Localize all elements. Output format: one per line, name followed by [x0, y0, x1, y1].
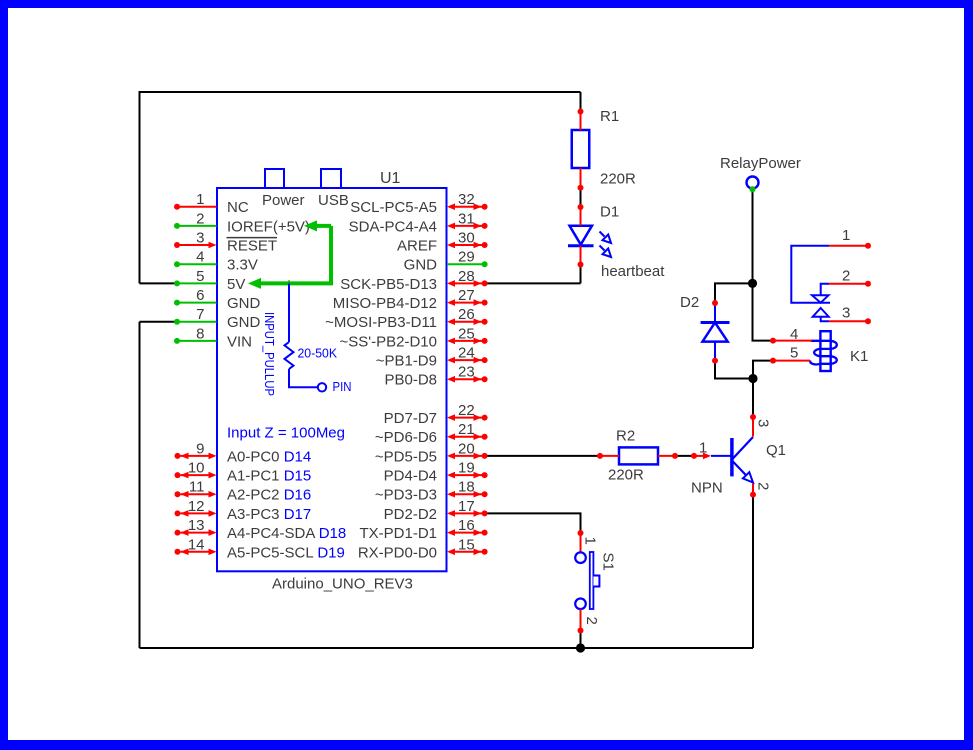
pin 4 wire — [177, 263, 217, 265]
wire top net (5V rail) — [140, 91, 581, 93]
svg-text:A2-PC2 D16: A2-PC2 D16 — [227, 487, 311, 504]
svg-text:29: 29 — [458, 249, 475, 266]
svg-text:23: 23 — [458, 364, 475, 381]
svg-text:USB: USB — [318, 192, 349, 209]
svg-text:2: 2 — [755, 482, 772, 490]
svg-text:220R: 220R — [600, 171, 636, 188]
svg-text:20: 20 — [458, 440, 475, 457]
wire R1 top stub — [580, 92, 582, 112]
svg-text:~MOSI-PB3-D11: ~MOSI-PB3-D11 — [325, 314, 437, 331]
pin 18 wire — [450, 493, 485, 495]
svg-text:PD7-D7: PD7-D7 — [384, 410, 437, 427]
svg-text:10: 10 — [188, 460, 205, 477]
svg-text:SCK-PB5-D13: SCK-PB5-D13 — [340, 276, 437, 293]
switch S1 pin 2 wire — [580, 609, 582, 630]
diode D1 cathode bar — [568, 244, 594, 247]
diode D2 cathode pin — [714, 303, 716, 323]
wire D1 bottom link — [580, 265, 582, 284]
relay K1 contact pin 2 wire — [829, 283, 868, 285]
pin 9 wire — [175, 453, 181, 459]
relay K1 pin 2 lead — [821, 284, 829, 296]
svg-text:TX-PD1-D1: TX-PD1-D1 — [359, 525, 437, 542]
svg-text:2: 2 — [196, 210, 204, 227]
svg-text:NC: NC — [227, 199, 249, 216]
svg-text:PB0-D8: PB0-D8 — [384, 372, 437, 389]
svg-text:~PB1-D9: ~PB1-D9 — [376, 353, 437, 370]
wire node to D2 top — [715, 283, 753, 303]
switch S1 top contact circle — [575, 552, 586, 563]
svg-text:26: 26 — [458, 306, 475, 323]
resistor R1 top pin — [580, 112, 582, 131]
svg-text:A4-PC4-SDA D18: A4-PC4-SDA D18 — [227, 525, 346, 542]
relay K1 coil winding — [810, 341, 837, 365]
switch S1 actuator bar — [590, 552, 594, 609]
svg-text:30: 30 — [458, 230, 475, 247]
svg-text:IOREF(+5V): IOREF(+5V) — [227, 218, 310, 235]
svg-text:9: 9 — [196, 440, 204, 457]
pin 8 wire — [177, 340, 217, 342]
green arrow to IOREF(+5V) — [313, 224, 331, 228]
resistor R1 bottom pin — [580, 168, 582, 188]
svg-text:12: 12 — [188, 498, 205, 515]
pin 15 wire — [450, 551, 485, 553]
svg-text:5: 5 — [196, 268, 204, 285]
svg-text:19: 19 — [458, 460, 475, 477]
svg-text:20-50K: 20-50K — [298, 346, 338, 361]
svg-text:heartbeat: heartbeat — [601, 263, 665, 280]
svg-text:27: 27 — [458, 287, 475, 304]
svg-text:GND: GND — [227, 314, 261, 331]
diode D2 triangle — [703, 323, 728, 342]
relay K1 coil pin 5 wire — [773, 360, 810, 362]
junction node B (D2/coil5/collector) — [748, 374, 757, 383]
pin 14 wire — [175, 549, 181, 555]
transistor Q1 collector stroke — [733, 437, 753, 459]
pin 29 wire (GND) — [447, 263, 484, 265]
svg-text:16: 16 — [458, 517, 475, 534]
svg-text:21: 21 — [458, 421, 475, 438]
transistor Q1 emitter arrowhead — [743, 472, 753, 482]
svg-text:A1-PC1 D15: A1-PC1 D15 — [227, 468, 311, 485]
pin 12 wire — [175, 510, 181, 516]
svg-text:R1: R1 — [600, 108, 619, 125]
svg-text:Q1: Q1 — [766, 442, 786, 459]
svg-text:18: 18 — [458, 479, 475, 496]
junction node C (S1/GND rail) — [576, 643, 585, 652]
pin 10 wire — [175, 472, 181, 478]
svg-text:22: 22 — [458, 402, 475, 419]
svg-text:3: 3 — [196, 230, 204, 247]
diode D1 cathode pin — [580, 246, 582, 265]
svg-text:4: 4 — [196, 249, 204, 266]
wire pin20 to R2 — [485, 455, 600, 457]
svg-text:AREF: AREF — [397, 238, 437, 255]
resistor R2 — [619, 447, 658, 464]
resistor R1 — [572, 130, 590, 168]
pin 26 wire — [450, 321, 485, 323]
svg-text:17: 17 — [458, 498, 475, 515]
svg-text:PIN: PIN — [333, 379, 352, 394]
transistor Q1 emitter pin — [752, 484, 754, 495]
pin 7 wire — [177, 321, 217, 323]
green junction tick — [288, 280, 290, 286]
pin 31 wire — [450, 225, 485, 227]
wire to relay coil pin 5 — [753, 361, 773, 379]
node RelayPower circle — [747, 177, 759, 189]
svg-text:GND: GND — [404, 257, 438, 274]
pin 23 wire — [450, 378, 485, 380]
pin 11 wire — [175, 491, 181, 497]
LED arrow 2 — [600, 246, 605, 251]
U1 USB connector notch — [321, 169, 341, 188]
pin 2 wire (IOREF) — [177, 225, 217, 227]
svg-text:~PD5-D5: ~PD5-D5 — [375, 448, 437, 465]
PIN terminal circle — [318, 383, 326, 391]
diode D2 anode pin — [714, 342, 716, 361]
resistor 20-50K zigzag — [285, 342, 294, 369]
relay K1 contact pin 1 wire — [829, 245, 868, 247]
svg-text:S1: S1 — [600, 553, 617, 571]
pin 1 wire (NC) — [177, 206, 217, 208]
svg-text:32: 32 — [458, 191, 475, 208]
svg-text:D2: D2 — [680, 294, 699, 311]
svg-text:7: 7 — [196, 306, 204, 323]
svg-text:VIN: VIN — [227, 333, 252, 350]
wire Q1 emitter to GND rail — [752, 495, 754, 648]
svg-text:R2: R2 — [616, 428, 635, 445]
wire left vertical (GND rail) — [139, 322, 141, 648]
svg-text:Power: Power — [262, 192, 305, 209]
svg-text:A5-PC5-SCL D19: A5-PC5-SCL D19 — [227, 544, 345, 561]
transistor Q1 collector pin — [752, 417, 754, 437]
wire to relay coil pin 4 — [753, 283, 774, 340]
switch S1 bottom contact circle — [575, 599, 586, 610]
RESET overline — [227, 237, 278, 239]
svg-text:~PD6-D6: ~PD6-D6 — [375, 429, 437, 446]
pin 21 wire — [450, 436, 485, 438]
svg-text:3: 3 — [842, 305, 850, 322]
svg-text:11: 11 — [189, 479, 205, 496]
svg-text:6: 6 — [196, 287, 204, 304]
pin 16 wire — [450, 532, 485, 534]
transistor Q1 base bar — [730, 438, 734, 476]
svg-text:GND: GND — [227, 295, 261, 312]
svg-text:RESET: RESET — [227, 238, 277, 255]
svg-text:Arduino_UNO_REV3: Arduino_UNO_REV3 — [272, 576, 413, 593]
pin 17 wire — [450, 512, 485, 514]
U1 Power connector notch — [265, 169, 284, 188]
svg-text:D1: D1 — [600, 204, 619, 221]
svg-text:U1: U1 — [380, 170, 401, 187]
svg-text:25: 25 — [458, 325, 475, 342]
svg-text:RelayPower: RelayPower — [720, 155, 801, 172]
wire R1-D1 link — [580, 188, 582, 207]
resistor R2 left pin — [600, 455, 619, 457]
svg-text:~SS'-PB2-D10: ~SS'-PB2-D10 — [340, 333, 438, 350]
transistor Q1 base lead — [711, 455, 732, 457]
svg-text:3: 3 — [755, 419, 772, 427]
svg-text:4: 4 — [790, 326, 798, 343]
svg-text:K1: K1 — [850, 348, 868, 365]
transistor Q1 emitter stroke — [733, 462, 753, 483]
svg-text:PD4-D4: PD4-D4 — [384, 468, 437, 485]
pin 3 wire (RESET) — [177, 244, 214, 246]
wire D2 bottom return — [715, 361, 753, 379]
svg-text:15: 15 — [458, 536, 475, 553]
svg-text:A3-PC3 D17: A3-PC3 D17 — [227, 506, 311, 523]
wire R2 to Q1 base — [675, 455, 694, 457]
relay K1 common arm lead — [791, 246, 830, 303]
pin 25 wire — [450, 340, 485, 342]
svg-text:3.3V: 3.3V — [227, 257, 258, 274]
switch S1 actuator notch — [593, 576, 599, 587]
wire pin17 to S1 — [485, 513, 581, 533]
relay K1 pin 3 lead — [821, 317, 830, 322]
svg-text:31: 31 — [458, 210, 475, 227]
switch S1 pin 1 wire — [580, 533, 582, 552]
svg-text:NPN: NPN — [691, 480, 723, 497]
green arrow to 5V — [258, 281, 333, 285]
svg-text:Input Z = 100Meg: Input Z = 100Meg — [227, 424, 345, 441]
wire 5V feed to pin 5 — [140, 282, 178, 284]
wire left vertical (5V rail) — [139, 91, 141, 283]
svg-text:PD2-D2: PD2-D2 — [384, 506, 437, 523]
pin 27 wire — [450, 302, 485, 304]
pin 6 wire — [177, 302, 217, 304]
svg-text:1: 1 — [196, 191, 204, 208]
pullup wire lower — [289, 369, 318, 387]
LED arrow 1 — [600, 232, 605, 237]
junction node A (RelayPower/D2/coil4) — [748, 279, 757, 288]
wire GND feed to pin 7 — [140, 321, 178, 323]
svg-text:220R: 220R — [608, 467, 644, 484]
svg-text:RX-PD0-D0: RX-PD0-D0 — [358, 544, 437, 561]
svg-text:14: 14 — [188, 536, 205, 553]
svg-text:~PD3-D3: ~PD3-D3 — [375, 487, 437, 504]
relay K1 contact pin 3 wire — [829, 320, 868, 322]
svg-text:5: 5 — [790, 345, 798, 362]
svg-text:13: 13 — [188, 517, 205, 534]
svg-text:SCL-PC5-A5: SCL-PC5-A5 — [350, 199, 437, 216]
pin 28 wire — [450, 282, 485, 284]
svg-text:2: 2 — [583, 617, 600, 625]
pin 24 wire — [450, 359, 485, 361]
svg-text:5V: 5V — [227, 276, 245, 293]
pin 30 wire — [450, 244, 485, 246]
relay K1 NC contact triangle — [812, 295, 829, 302]
wire bottom net (GND rail) — [140, 647, 754, 649]
diode D2 cathode bar — [701, 321, 730, 324]
svg-text:SDA-PC4-A4: SDA-PC4-A4 — [349, 218, 437, 235]
svg-text:INPUT_PULLUP: INPUT_PULLUP — [262, 312, 277, 396]
svg-text:MISO-PB4-D12: MISO-PB4-D12 — [333, 295, 437, 312]
svg-text:1: 1 — [842, 227, 850, 244]
svg-text:2: 2 — [842, 268, 850, 285]
relay K1 NO contact triangle — [813, 308, 829, 317]
svg-text:1: 1 — [582, 537, 599, 545]
wire RelayPower vertical — [752, 190, 754, 284]
wire pin28 to R1/D1 chain — [485, 282, 581, 284]
pin 20 wire — [450, 455, 485, 457]
relay K1 coil body — [820, 331, 830, 371]
wire S1 bottom to GND rail — [580, 631, 582, 649]
svg-text:8: 8 — [196, 325, 204, 342]
svg-text:28: 28 — [458, 268, 475, 285]
pin 19 wire — [450, 474, 485, 476]
transistor Q1 base pin wire — [694, 455, 704, 457]
pin 5 wire — [177, 282, 217, 284]
svg-text:A0-PC0 D14: A0-PC0 D14 — [227, 448, 311, 465]
pin 22 wire — [450, 417, 485, 419]
node RelayPower green dot — [750, 186, 756, 192]
pin 13 wire — [175, 530, 181, 536]
svg-text:1: 1 — [699, 440, 707, 457]
page border frame (blue) — [0, 0, 973, 8]
resistor R2 right pin — [658, 455, 675, 457]
pin 32 wire — [450, 206, 485, 208]
svg-text:24: 24 — [458, 345, 475, 362]
pullup wire upper — [288, 283, 290, 342]
diode D1 anode pin — [580, 207, 582, 226]
op-amp U1 body (Arduino box) — [217, 188, 447, 571]
wire Q1 collector net — [752, 379, 754, 418]
green arrow vertical — [329, 226, 333, 284]
diode D1 triangle — [570, 226, 593, 245]
relay K1 coil pin 4 wire — [773, 340, 812, 342]
